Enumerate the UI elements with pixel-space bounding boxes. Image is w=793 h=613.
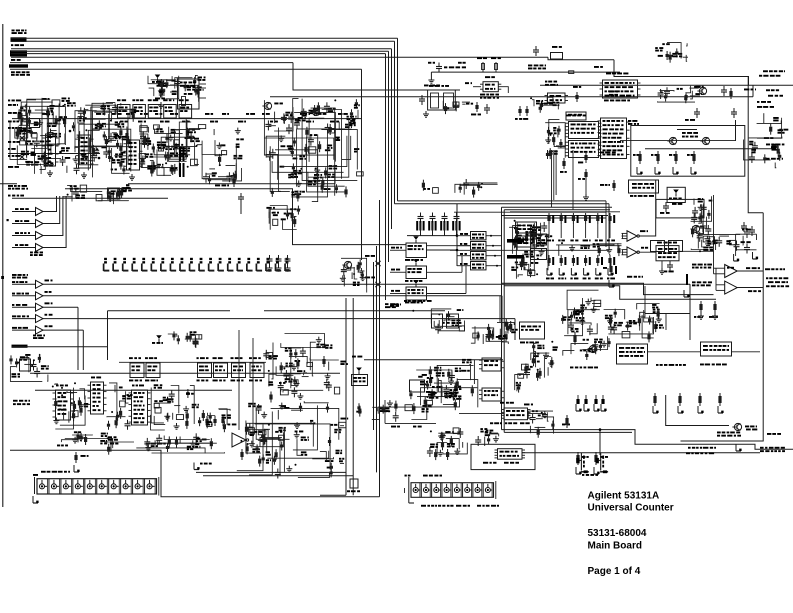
svg-text:Universal Counter: Universal Counter xyxy=(588,503,674,514)
svg-text:Main Board: Main Board xyxy=(588,541,642,552)
svg-text:Page 1 of 4: Page 1 of 4 xyxy=(588,566,641,577)
svg-text:53131-68004: 53131-68004 xyxy=(588,528,647,539)
svg-text:Agilent 53131A: Agilent 53131A xyxy=(588,491,660,502)
